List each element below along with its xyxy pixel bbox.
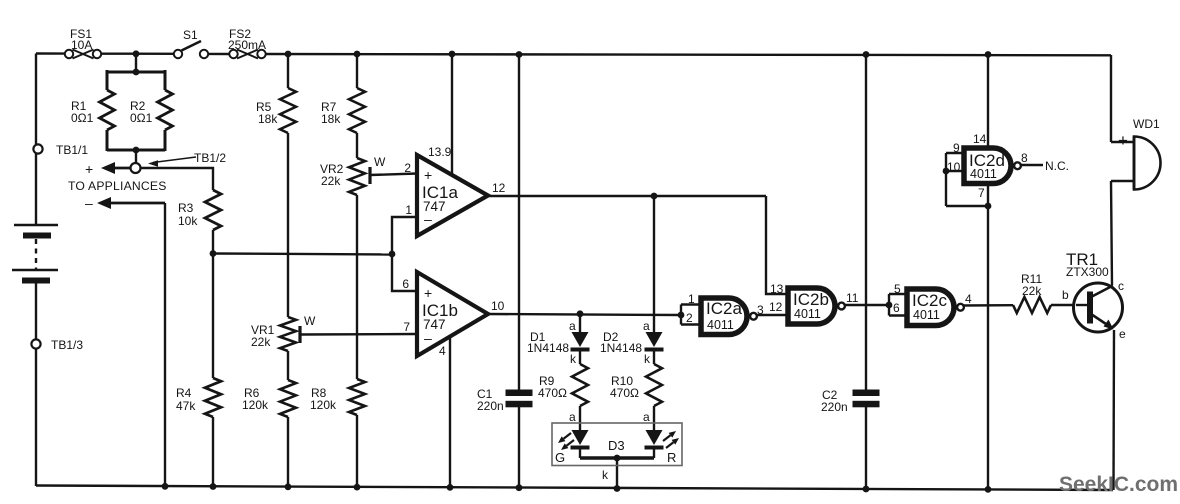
wire [865, 407, 867, 490]
svg-text:a: a [569, 410, 576, 424]
wire [100, 53, 179, 55]
resistor R10 [610, 364, 662, 406]
node junction bottom-pin4 [447, 484, 454, 491]
nand-gate IC2d [947, 132, 1028, 200]
diode D1 [527, 319, 590, 366]
svg-text:250mA: 250mA [228, 38, 266, 52]
wire [356, 195, 358, 379]
wire [298, 326, 301, 343]
wire [36, 486, 1113, 491]
wire [164, 70, 167, 90]
svg-text:5: 5 [894, 282, 901, 296]
wire [140, 167, 214, 169]
svg-text:e: e [1119, 327, 1126, 341]
svg-text:TB1/1: TB1/1 [56, 143, 88, 157]
svg-text:18k: 18k [258, 112, 278, 126]
node junction R1R2-top [133, 69, 140, 76]
svg-text:12: 12 [769, 300, 783, 314]
node N.C. [1045, 159, 1069, 173]
wire [946, 205, 988, 207]
wire [451, 54, 453, 176]
svg-text:13.9: 13.9 [428, 145, 452, 159]
resistor R8 [310, 379, 365, 415]
node junction rail-C1 [516, 51, 523, 58]
wire [111, 202, 165, 205]
svg-text:+: + [85, 161, 93, 177]
svg-text:TB1/2: TB1/2 [194, 151, 226, 165]
svg-text:7: 7 [978, 186, 985, 200]
wire [653, 351, 655, 364]
resistor R9 [538, 364, 588, 406]
svg-text:120k: 120k [310, 398, 337, 412]
wire [1110, 55, 1112, 142]
node junction rail-IC2d [985, 51, 992, 58]
resistor R5 [256, 88, 296, 133]
node junction bottom-R4 [210, 483, 217, 490]
svg-text:–: – [424, 330, 432, 346]
svg-text:747: 747 [423, 317, 446, 332]
svg-text:SeekIC.com: SeekIC.com [1059, 473, 1178, 496]
svg-text:4: 4 [439, 344, 446, 358]
svg-text:R: R [667, 450, 676, 465]
watermark SeekIC.com [1059, 473, 1178, 496]
op-amp IC1b [402, 272, 504, 358]
svg-text:4011: 4011 [913, 308, 940, 322]
wire [653, 448, 655, 458]
terminal TB1/3 [31, 338, 83, 352]
svg-text:0Ω1: 0Ω1 [71, 111, 94, 125]
wire [987, 55, 989, 147]
resistor R3 [178, 190, 221, 230]
svg-text:1: 1 [405, 203, 412, 217]
node junction rail-R5 [285, 51, 292, 58]
fuse FS2 [228, 27, 266, 59]
terminal TB1/1 [33, 143, 88, 157]
node junction IC1a-out-D2 [651, 193, 658, 200]
svg-text:22k: 22k [1022, 284, 1042, 298]
svg-text:ZTX300: ZTX300 [1066, 265, 1109, 279]
wire [392, 254, 417, 291]
wire [35, 239, 37, 269]
wire [987, 184, 989, 490]
wire [845, 304, 889, 306]
svg-text:47k: 47k [176, 399, 196, 413]
LED D3 green [555, 410, 590, 465]
wire [449, 330, 451, 488]
svg-text:14: 14 [973, 132, 987, 146]
nand-gate IC2b [769, 282, 859, 324]
svg-text:a: a [569, 319, 576, 333]
svg-text:4011: 4011 [794, 307, 821, 321]
wire [487, 314, 681, 315]
wire [35, 283, 37, 486]
svg-text:c: c [1118, 279, 1124, 293]
node junction bottom-R6 [285, 483, 292, 490]
node junction IC1b-out-D1 [577, 310, 584, 317]
wire [287, 351, 289, 380]
wire [265, 54, 1111, 55]
svg-text:22k: 22k [321, 174, 341, 188]
svg-text:R4: R4 [176, 386, 192, 400]
svg-text:+: + [424, 285, 432, 301]
node junction rail-supply [449, 51, 456, 58]
svg-text:+: + [424, 167, 432, 183]
svg-text:4011: 4011 [970, 167, 997, 181]
node junction bottom-R8 [354, 484, 361, 491]
svg-text:2: 2 [404, 161, 411, 175]
svg-text:220n: 220n [821, 400, 848, 414]
wire [756, 314, 789, 316]
node junction bottom-IC2d [985, 486, 992, 493]
wire [212, 167, 214, 190]
svg-text:22k: 22k [251, 335, 271, 349]
wire [106, 70, 109, 90]
wire [368, 167, 371, 184]
svg-text:9: 9 [953, 141, 960, 155]
wire [681, 303, 700, 305]
wire [888, 294, 890, 316]
wire [356, 54, 358, 88]
wire [135, 54, 137, 73]
node junction IC2d-pin7 [985, 203, 992, 210]
wire [35, 54, 37, 225]
svg-text:a: a [643, 319, 650, 333]
node TO APPLIANCES [68, 179, 167, 193]
node junction IC2d-in-loop [943, 168, 950, 175]
wire [680, 305, 682, 325]
node junction bottom-minus [162, 483, 169, 490]
svg-text:120k: 120k [242, 398, 269, 412]
wire [356, 133, 358, 158]
wire [356, 415, 358, 488]
wire [616, 458, 618, 489]
node junction D3-bottomrail [614, 485, 621, 492]
svg-text:10: 10 [491, 299, 505, 313]
wire [518, 55, 520, 391]
node minus-output arrow [85, 195, 111, 211]
node plus-output arrow [85, 161, 131, 177]
wire [962, 304, 1013, 307]
svg-text:8: 8 [1021, 151, 1028, 165]
wire [135, 150, 137, 164]
wire [1111, 141, 1134, 143]
wire [946, 152, 964, 154]
svg-text:a: a [643, 410, 650, 424]
wire [579, 448, 581, 458]
switch S1 [174, 28, 208, 58]
wire [487, 195, 766, 197]
wire [579, 351, 581, 364]
wire [392, 217, 417, 254]
resistor R6 [242, 380, 296, 417]
svg-text:D3: D3 [608, 438, 625, 453]
svg-text:6: 6 [402, 277, 409, 291]
potentiometer VR1 [251, 314, 316, 351]
svg-text:1: 1 [688, 292, 695, 306]
svg-text:TO APPLIANCES: TO APPLIANCES [68, 179, 167, 193]
wire [1111, 181, 1112, 285]
wire [865, 55, 867, 391]
terminal TB1/2 [131, 151, 227, 173]
wire [164, 203, 166, 487]
wire [653, 406, 655, 430]
wire [212, 230, 214, 254]
nand-gate IC2a [686, 292, 764, 335]
node junction IC2a-in [678, 312, 685, 319]
svg-text:12: 12 [492, 181, 506, 195]
svg-text:b: b [1062, 288, 1069, 302]
wire [213, 254, 392, 255]
node junction rail-C2 [863, 51, 870, 58]
svg-text:IC2a: IC2a [706, 299, 742, 318]
node junction D3-cathode [602, 455, 620, 482]
svg-text:747: 747 [423, 199, 446, 214]
svg-text:3: 3 [757, 303, 764, 317]
battery B1 [12, 225, 58, 284]
svg-text:k: k [644, 352, 651, 366]
svg-text:6: 6 [893, 301, 900, 315]
wire [203, 53, 230, 55]
svg-text:k: k [570, 352, 577, 366]
svg-text:WD1: WD1 [1133, 117, 1160, 131]
resistor R2 [130, 90, 173, 130]
wire [1021, 164, 1043, 166]
wire [1051, 304, 1090, 306]
wire [287, 133, 289, 317]
resistor R11 [1013, 272, 1051, 313]
wire [653, 196, 655, 332]
wire [287, 54, 289, 88]
svg-text:+: + [1118, 131, 1128, 150]
potentiometer VR2 [320, 155, 386, 195]
wire [766, 196, 789, 294]
wire [1112, 330, 1115, 490]
svg-text:470Ω: 470Ω [610, 386, 639, 400]
wire [370, 174, 417, 176]
diode D2 [600, 319, 664, 366]
node junction bottom-C2 [863, 486, 870, 493]
svg-text:2: 2 [686, 311, 693, 325]
svg-text:11: 11 [846, 291, 859, 305]
wire [518, 407, 520, 488]
resistor R1 [71, 90, 115, 130]
nand-gate IC2c [893, 282, 972, 326]
wire [889, 314, 906, 316]
wire [889, 293, 906, 295]
op-amp IC1a [404, 145, 505, 236]
svg-text:N.C.: N.C. [1045, 159, 1069, 173]
svg-text:S1: S1 [183, 28, 198, 42]
node junction IC2c-in [886, 302, 893, 309]
svg-text:G: G [555, 450, 565, 465]
svg-text:W: W [374, 155, 386, 169]
wire [287, 417, 289, 488]
svg-text:1N4148: 1N4148 [527, 341, 569, 355]
node junction R3-R4 [210, 250, 217, 257]
node junction R1R2-bottom [133, 147, 140, 154]
wire [107, 71, 165, 74]
fuse FS1 [65, 27, 101, 59]
wire [36, 52, 66, 54]
wire [946, 170, 964, 172]
wire [681, 323, 700, 325]
wire [1111, 180, 1134, 182]
svg-text:18k: 18k [321, 112, 341, 126]
wire [212, 417, 214, 487]
LED D3 box [552, 423, 682, 466]
node junction rail-R7 [354, 51, 361, 58]
wire [106, 130, 109, 151]
wire [164, 130, 167, 151]
sounder WD1 [1118, 117, 1161, 190]
svg-text:k: k [602, 468, 609, 482]
svg-text:10k: 10k [178, 214, 198, 228]
resistor R7 [321, 88, 365, 133]
svg-text:R3: R3 [178, 201, 194, 215]
svg-text:4011: 4011 [707, 318, 734, 332]
capacitor C2 [821, 388, 880, 414]
wire [579, 406, 581, 430]
node junction bottom-C1 [516, 484, 523, 491]
svg-text:–: – [85, 195, 93, 211]
LED D3 red [643, 410, 679, 465]
wire [945, 153, 947, 206]
wire [212, 254, 214, 378]
svg-text:W: W [304, 314, 316, 328]
svg-text:470Ω: 470Ω [538, 386, 567, 400]
node junction opamp-inputs [389, 251, 396, 258]
wire [107, 149, 165, 152]
wire [579, 314, 581, 333]
svg-text:TB1/3: TB1/3 [51, 338, 83, 352]
svg-text:13: 13 [770, 282, 784, 296]
svg-text:220n: 220n [477, 399, 504, 413]
resistor R4 [176, 378, 221, 417]
svg-text:0Ω1: 0Ω1 [130, 111, 153, 125]
node junction rail-R1R2 [133, 50, 140, 57]
wire [300, 333, 417, 336]
svg-text:10A: 10A [71, 38, 92, 52]
transistor TR1 [1062, 250, 1126, 341]
capacitor C1 [477, 387, 533, 413]
wire [580, 456, 654, 460]
svg-text:4: 4 [965, 292, 972, 306]
svg-text:1N4148: 1N4148 [600, 341, 642, 355]
svg-text:7: 7 [403, 320, 410, 334]
